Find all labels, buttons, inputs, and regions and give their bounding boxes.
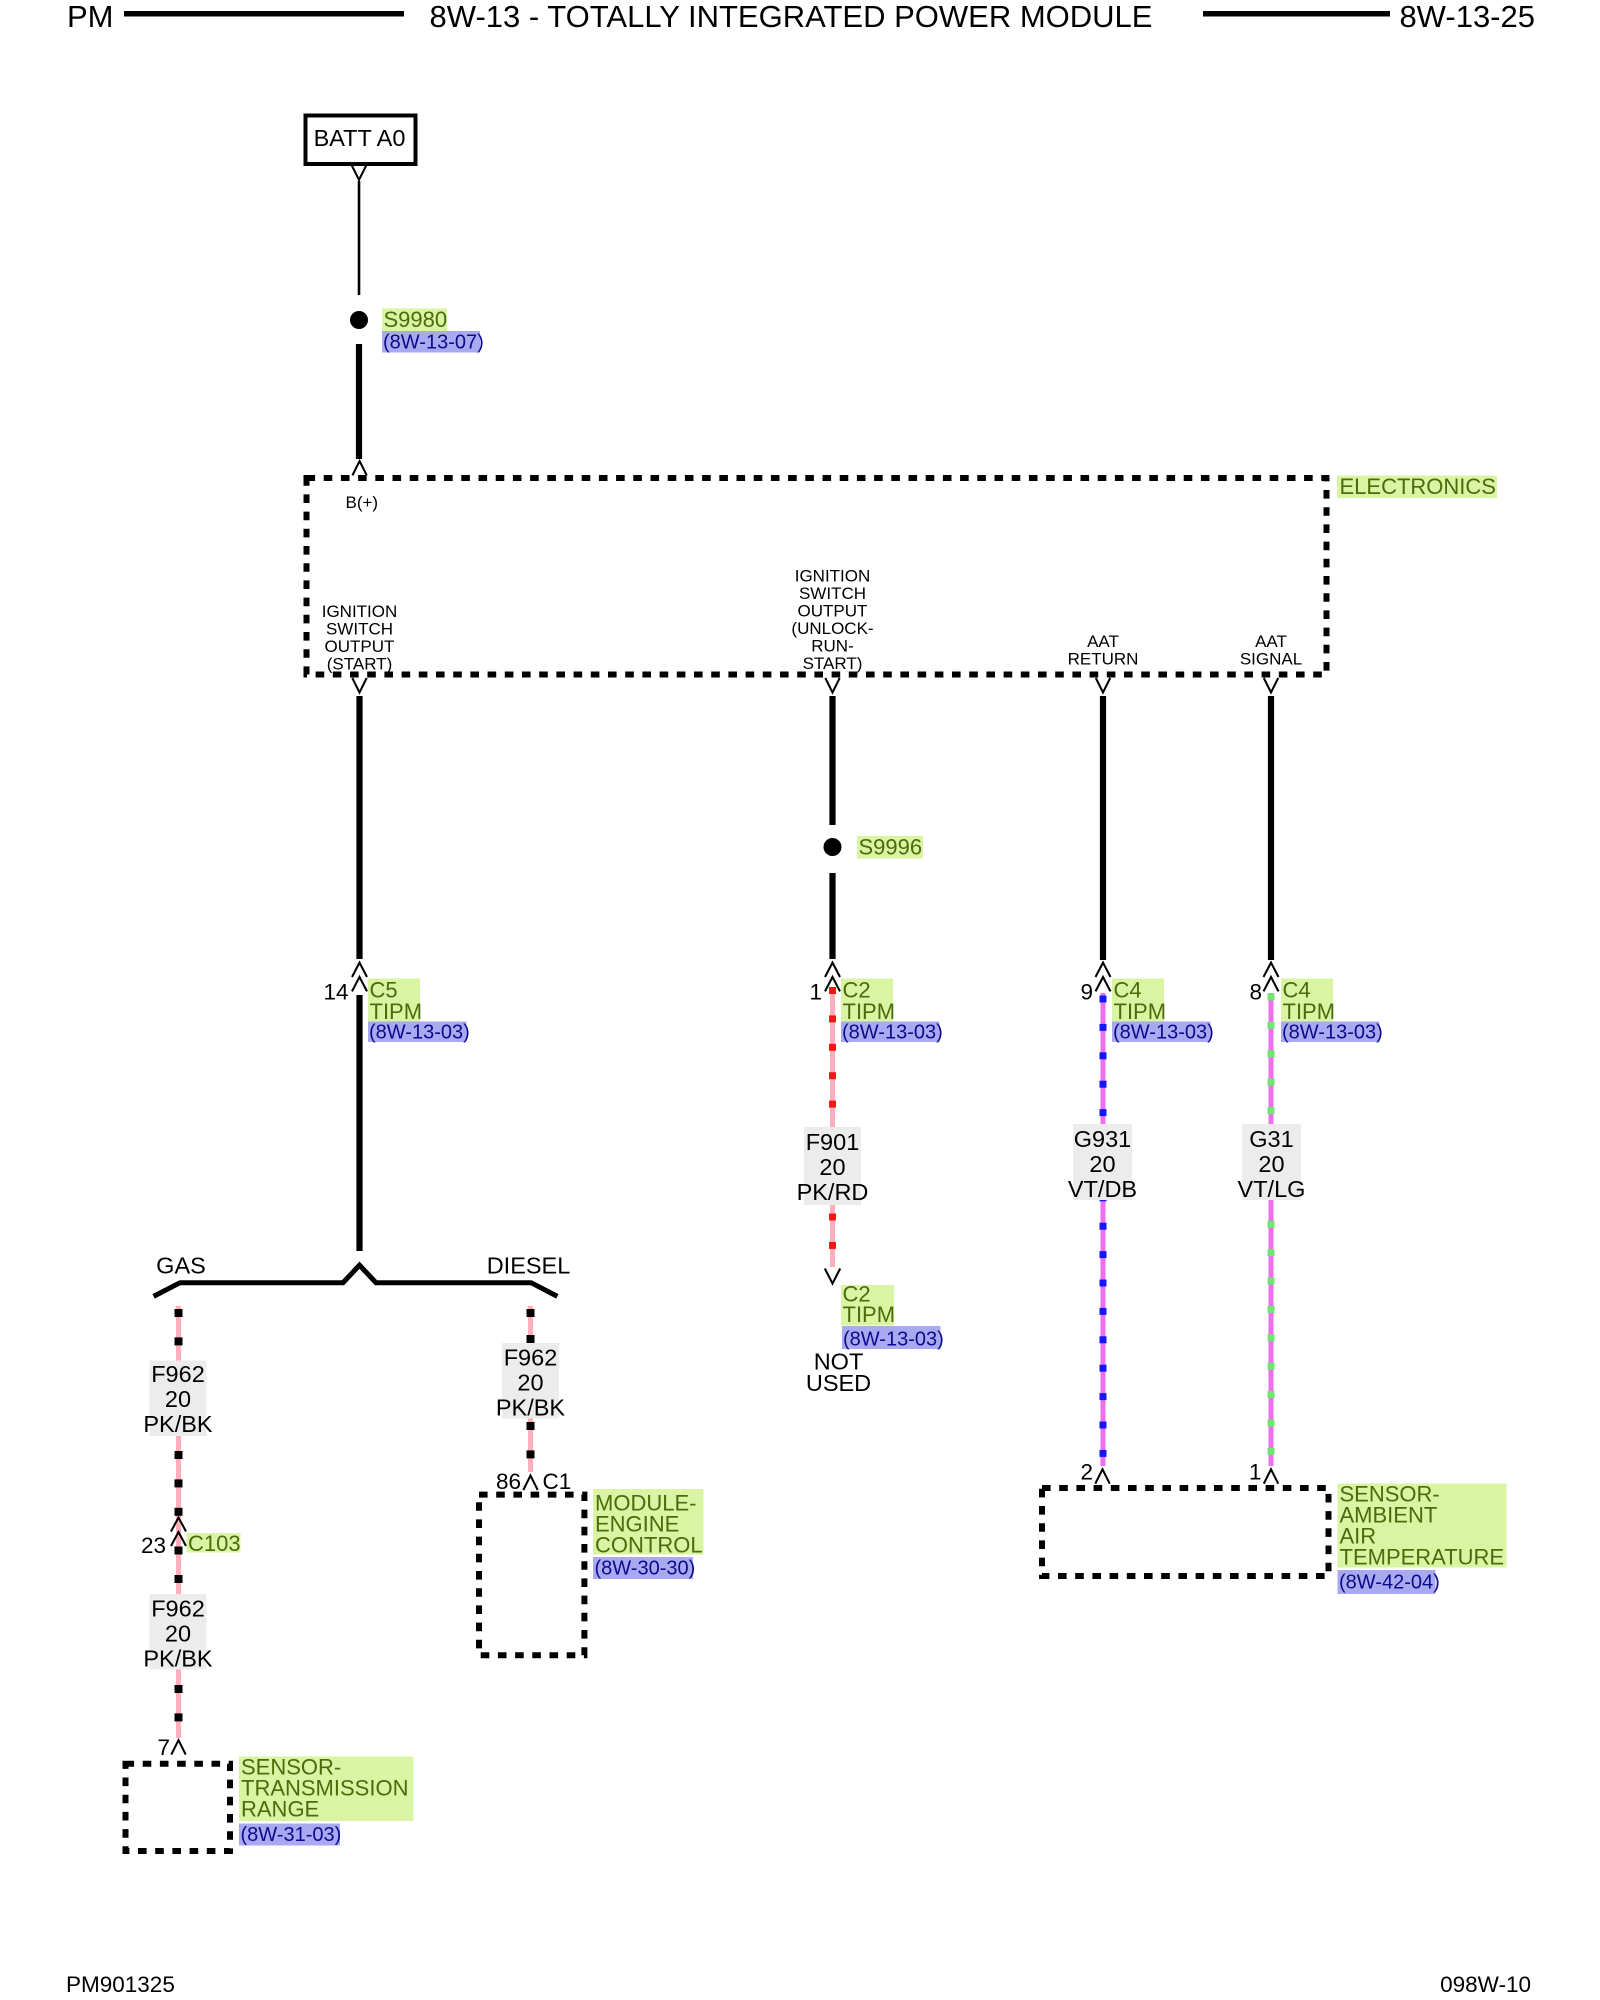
svg-text:20: 20 <box>1258 1151 1284 1177</box>
connector label C5 TIPM <box>368 978 422 1025</box>
svg-text:PK/BK: PK/BK <box>143 1411 213 1437</box>
wire label F962 20 PK/BK (gas upper) <box>143 1361 213 1438</box>
svg-text:C1: C1 <box>543 1469 572 1494</box>
svg-text:14: 14 <box>323 980 348 1005</box>
connector C5 chevrons <box>352 963 367 992</box>
svg-text:F962: F962 <box>504 1345 558 1371</box>
svg-text:PK/BK: PK/BK <box>496 1395 566 1421</box>
connector label C4 TIPM (signal) <box>1281 978 1335 1025</box>
svg-text:TIPM: TIPM <box>843 999 896 1024</box>
component box MODULE-ENGINE CONTROL (dashed) <box>479 1495 584 1656</box>
header rule left <box>124 11 404 17</box>
connector ref (8W-13-03) for C4 signal <box>1281 1022 1383 1044</box>
component box SENSOR-TRANSMISSION RANGE (dashed) <box>126 1764 231 1851</box>
svg-text:1: 1 <box>809 980 822 1005</box>
connector ref (8W-13-03) for C5 <box>368 1022 470 1044</box>
wire BATT A0 to splice S9980 <box>358 181 361 295</box>
svg-text:(8W-42-04): (8W-42-04) <box>1339 1572 1440 1594</box>
header rule right <box>1203 11 1390 17</box>
svg-text:OUTPUT: OUTPUT <box>798 602 868 621</box>
wire label F962 20 PK/BK (gas lower) <box>143 1594 213 1672</box>
svg-text:G31: G31 <box>1249 1126 1293 1152</box>
arrow into AAT sensor pin 2 <box>1095 1469 1109 1483</box>
svg-text:(8W-13-03): (8W-13-03) <box>843 1329 944 1351</box>
svg-text:(8W-13-03): (8W-13-03) <box>1282 1022 1383 1044</box>
wire G931 VT/DB <box>1100 993 1107 1466</box>
splice S9980 <box>350 311 368 329</box>
splice ref (8W-13-07) <box>382 331 484 354</box>
pin label AAT SIGNAL <box>1240 632 1302 669</box>
svg-text:(8W-13-03): (8W-13-03) <box>842 1022 943 1044</box>
svg-text:SIGNAL: SIGNAL <box>1240 650 1302 669</box>
connector label C2 TIPM (not used) <box>841 1282 895 1328</box>
note NOT USED <box>806 1349 871 1397</box>
svg-text:(8W-13-07): (8W-13-07) <box>383 332 484 354</box>
arrow into ECM pin 86 <box>523 1476 537 1490</box>
svg-text:(8W-13-03): (8W-13-03) <box>369 1022 470 1044</box>
svg-text:CONTROL: CONTROL <box>595 1533 703 1558</box>
component ref (8W-31-03) <box>239 1824 341 1847</box>
svg-text:TIPM: TIPM <box>370 999 423 1024</box>
svg-text:OUTPUT: OUTPUT <box>325 637 395 656</box>
pin label AAT RETURN <box>1068 632 1139 669</box>
svg-text:AAT: AAT <box>1087 632 1119 651</box>
arrow to not-used C2 <box>825 1269 840 1284</box>
component ref (8W-42-04) <box>1338 1570 1440 1594</box>
splice label S9980 <box>382 307 447 332</box>
arrow into transmission range sensor pin 7 <box>171 1740 185 1754</box>
svg-text:F901: F901 <box>806 1129 860 1155</box>
svg-text:7: 7 <box>157 1735 170 1760</box>
module label ELECTRONICS <box>1337 474 1497 499</box>
wire splice S9980 to TIPM B(+) <box>356 344 362 459</box>
svg-text:F962: F962 <box>151 1596 205 1622</box>
svg-text:20: 20 <box>517 1370 543 1396</box>
svg-text:PK/BK: PK/BK <box>143 1646 213 1672</box>
svg-text:RETURN: RETURN <box>1068 650 1139 669</box>
svg-text:PM: PM <box>67 0 114 34</box>
svg-text:20: 20 <box>165 1621 191 1647</box>
wire C5 down to gas/diesel split <box>356 995 362 1251</box>
connector ref (8W-13-03) for C2 <box>841 1022 943 1044</box>
wire TIPM unlock-run-start output down to splice S9996 <box>829 696 835 825</box>
svg-text:C103: C103 <box>188 1531 241 1556</box>
wire splice S9996 to C2 <box>829 873 835 959</box>
module box TIPM ELECTRONICS (dashed) <box>307 478 1327 675</box>
connector C2 chevrons <box>825 963 840 992</box>
svg-text:098W-10: 098W-10 <box>1440 1972 1531 1997</box>
svg-text:PK/RD: PK/RD <box>797 1179 869 1205</box>
svg-text:(8W-13-03): (8W-13-03) <box>1113 1022 1214 1044</box>
svg-text:S9996: S9996 <box>859 835 923 860</box>
svg-text:B(+): B(+) <box>346 493 379 512</box>
svg-text:86: 86 <box>496 1469 521 1494</box>
svg-text:S9980: S9980 <box>384 307 448 332</box>
svg-text:VT/LG: VT/LG <box>1238 1176 1306 1202</box>
svg-text:BATT A0: BATT A0 <box>314 125 406 151</box>
svg-text:TEMPERATURE: TEMPERATURE <box>1340 1545 1505 1570</box>
component label SENSOR-AMBIENT AIR TEMPERATURE <box>1338 1482 1507 1570</box>
svg-text:TIPM: TIPM <box>1114 999 1167 1024</box>
svg-text:(UNLOCK-: (UNLOCK- <box>791 619 873 638</box>
pin label IGNITION SWITCH OUTPUT (START) <box>322 602 398 674</box>
wire label F901 20 PK/RD <box>797 1127 869 1205</box>
splice S9996 <box>824 838 842 856</box>
connector C4 chevrons (signal) <box>1264 963 1279 992</box>
connector ref (8W-13-03) (not used) <box>842 1326 944 1351</box>
svg-text:SWITCH: SWITCH <box>326 620 393 639</box>
svg-text:VT/DB: VT/DB <box>1068 1176 1137 1202</box>
wire F901 PK/RD <box>829 987 836 1267</box>
svg-text:ELECTRONICS: ELECTRONICS <box>1340 474 1496 499</box>
component label MODULE-ENGINE CONTROL <box>593 1489 704 1558</box>
component ref (8W-30-30) <box>593 1557 695 1580</box>
svg-text:USED: USED <box>806 1370 871 1396</box>
arrow out of TIPM AAT RETURN <box>1096 678 1110 692</box>
svg-text:(START): (START) <box>327 655 392 674</box>
svg-text:AAT: AAT <box>1255 632 1287 651</box>
wire F962 PK/BK diesel branch <box>527 1306 535 1472</box>
component label SENSOR-TRANSMISSION RANGE <box>239 1755 414 1822</box>
svg-text:GAS: GAS <box>156 1253 206 1279</box>
component box SENSOR-AMBIENT AIR TEMPERATURE (dashed) <box>1042 1488 1329 1576</box>
svg-text:(8W-30-30): (8W-30-30) <box>595 1558 696 1580</box>
wire G31 VT/LG <box>1268 993 1275 1466</box>
wire label G31 20 VT/LG <box>1238 1124 1306 1202</box>
svg-text:SWITCH: SWITCH <box>799 584 866 603</box>
svg-text:1: 1 <box>1249 1460 1262 1485</box>
arrow out of BATT A0 <box>352 166 366 180</box>
arrow out of TIPM AAT SIGNAL <box>1264 678 1278 692</box>
svg-text:G931: G931 <box>1074 1126 1132 1152</box>
gas/diesel split brace <box>154 1265 558 1296</box>
wire TIPM AAT RETURN down to C4 <box>1100 696 1106 960</box>
svg-text:IGNITION: IGNITION <box>795 567 871 586</box>
svg-text:START): START) <box>803 654 863 673</box>
wire label G931 20 VT/DB <box>1068 1124 1137 1202</box>
svg-text:(8W-31-03): (8W-31-03) <box>241 1824 342 1846</box>
svg-text:IGNITION: IGNITION <box>322 602 398 621</box>
arrow out of TIPM UNLOCK-RUN-START output <box>825 678 839 692</box>
pin label IGNITION SWITCH OUTPUT (UNLOCK-RUN-START) <box>791 567 873 674</box>
arrow out of TIPM START output <box>352 678 366 692</box>
svg-text:20: 20 <box>819 1154 845 1180</box>
svg-text:TIPM: TIPM <box>843 1302 896 1327</box>
wire F962 PK/BK gas branch <box>175 1306 183 1738</box>
wire label F962 20 PK/BK (diesel) <box>496 1343 566 1421</box>
svg-text:TIPM: TIPM <box>1283 999 1336 1024</box>
connector ref (8W-13-03) for C4 return <box>1112 1022 1214 1044</box>
svg-text:DIESEL: DIESEL <box>487 1253 571 1279</box>
svg-text:2: 2 <box>1080 1460 1093 1485</box>
svg-text:20: 20 <box>1089 1151 1115 1177</box>
svg-text:23: 23 <box>141 1533 166 1558</box>
svg-text:RANGE: RANGE <box>241 1797 319 1822</box>
arrow into TIPM B(+) <box>352 461 366 475</box>
svg-text:8: 8 <box>1249 980 1262 1005</box>
connector C103 chevrons <box>171 1518 186 1547</box>
connector label C103 <box>187 1531 241 1556</box>
wire TIPM START output down to C5 connector <box>356 696 362 959</box>
splice label S9996 <box>857 835 923 860</box>
connector C4 chevrons (return) <box>1096 963 1111 992</box>
svg-text:9: 9 <box>1080 980 1093 1005</box>
svg-text:RUN-: RUN- <box>811 637 854 656</box>
svg-text:8W-13 - TOTALLY INTEGRATED POW: 8W-13 - TOTALLY INTEGRATED POWER MODULE <box>430 0 1153 34</box>
wire TIPM AAT SIGNAL down to C4 <box>1268 696 1274 960</box>
connector label C2 TIPM <box>841 978 895 1025</box>
svg-text:PM901325: PM901325 <box>66 1972 175 1997</box>
connector label C4 TIPM (return) <box>1112 978 1166 1025</box>
svg-text:8W-13-25: 8W-13-25 <box>1399 0 1535 34</box>
svg-text:F962: F962 <box>151 1361 205 1387</box>
battery feed box BATT A0 <box>306 116 416 165</box>
svg-text:20: 20 <box>165 1386 191 1412</box>
arrow into AAT sensor pin 1 <box>1264 1469 1278 1483</box>
